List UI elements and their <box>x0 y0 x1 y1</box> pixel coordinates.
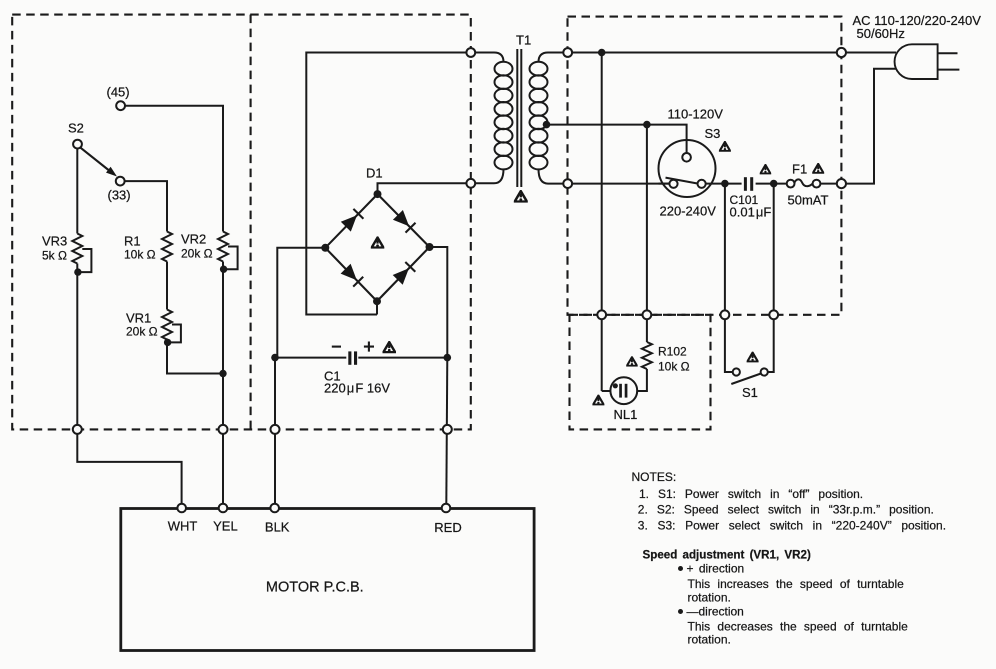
svg-text:Speed adjustment (VR1, VR2): Speed adjustment (VR1, VR2) <box>643 549 811 562</box>
junction S3 output <box>721 180 729 188</box>
plug prong bottom <box>938 69 960 71</box>
switch S1 contacts <box>733 368 740 375</box>
diode D1 bottom-right <box>393 268 409 285</box>
svg-text:RED: RED <box>434 520 461 535</box>
terminal node 33 <box>116 177 125 186</box>
wire node 45 to VR2 top <box>125 106 223 232</box>
svg-text:—direction: —direction <box>687 605 744 619</box>
svg-text:F1: F1 <box>792 162 807 177</box>
motor pcb box <box>121 509 534 651</box>
wire after fuse to plug <box>820 69 900 184</box>
pin WHT <box>177 504 186 513</box>
enclosure dashed box right (power input section) <box>568 17 842 315</box>
terminal T1 left top <box>466 48 475 57</box>
svg-text:50mAT: 50mAT <box>788 193 829 208</box>
switch S3 body <box>659 140 716 197</box>
junction bridge top vertex <box>374 190 382 198</box>
svg-text:VR2: VR2 <box>181 232 206 247</box>
wire bridge bottom vertex stub <box>376 301 378 314</box>
wire bridge right vertex to C1 <box>430 247 448 358</box>
svg-text:10k Ω: 10k Ω <box>124 248 156 262</box>
wire bridge left vertex to C1 <box>277 248 325 358</box>
svg-text:10k Ω: 10k Ω <box>658 360 690 374</box>
svg-text:rotation.: rotation. <box>688 633 731 647</box>
terminal T1 right bottom <box>563 179 572 188</box>
wire node 33 to R1 top <box>124 181 167 231</box>
warning triangle S1 <box>747 353 758 362</box>
warning triangle C1 <box>383 342 395 352</box>
terminal lamp box 2 <box>643 310 652 319</box>
terminal S1 feed 2 <box>769 310 778 319</box>
enclosure dashed box left (speed control section) <box>12 15 471 430</box>
junction bridge left vertex <box>321 244 329 252</box>
resistor VR3 <box>72 234 82 264</box>
junction 110V tap <box>643 121 651 129</box>
wire R102 bottom to lamp <box>637 369 647 391</box>
wiper VR2 <box>225 247 238 270</box>
svg-text:S1: S1 <box>742 385 758 400</box>
pin BLK <box>270 504 279 513</box>
warning triangle under T1 <box>515 191 527 202</box>
transformer T1 right winding <box>539 53 568 63</box>
terminal AC top <box>837 48 846 57</box>
wiper VR1 <box>169 325 181 343</box>
wire center tap to S3 <box>547 124 647 126</box>
junction bridge right vertex <box>426 243 434 251</box>
warning triangle S3 <box>720 142 731 151</box>
svg-text:S2: S2 <box>68 121 84 136</box>
switch S3 arm <box>666 178 698 184</box>
svg-text:220 μ F 16V: 220 μ F 16V <box>324 381 390 396</box>
vertical wire top row to lamp box <box>602 53 611 392</box>
svg-text:0.01 μF: 0.01 μF <box>730 205 772 220</box>
switch S3 left contact <box>669 180 677 188</box>
terminal node 45 <box>116 101 125 110</box>
terminal AC bottom <box>837 179 846 188</box>
wire R1 bottom to VR1 top <box>166 262 168 310</box>
svg-text:50/60Hz: 50/60Hz <box>857 26 905 41</box>
wire VR1 bottom to VR2 line <box>167 339 223 374</box>
wire VR2 bottom to YEL terminal <box>222 262 224 430</box>
plug prong top <box>938 52 958 54</box>
svg-text:(33): (33) <box>108 188 131 203</box>
warning triangle C101 <box>760 165 770 174</box>
wire VR3 bottom to WHT terminal <box>76 264 78 430</box>
resistor VR2 <box>218 232 228 262</box>
junction C1 right <box>444 354 452 362</box>
vertical wire S3 output to S1 <box>725 184 733 372</box>
pin YEL <box>219 504 228 513</box>
wire C1 left to BLK terminal <box>274 358 276 505</box>
wire C1 right to RED terminal <box>446 358 447 505</box>
AC plug <box>895 44 938 79</box>
pin RED <box>442 504 451 513</box>
svg-text:rotation.: rotation. <box>688 591 731 605</box>
fuse F1 <box>787 180 795 188</box>
svg-text:NOTES:: NOTES: <box>632 470 677 484</box>
wire C101 to fuse <box>756 183 788 185</box>
svg-text:R102: R102 <box>658 345 687 359</box>
terminal BLK boundary <box>271 425 280 434</box>
diode bridge D1 sides <box>325 194 429 301</box>
terminal YEL boundary <box>219 425 228 434</box>
junction VR2 wiper <box>220 266 227 273</box>
svg-text:MOTOR P.C.B.: MOTOR P.C.B. <box>266 580 364 596</box>
svg-text:(45): (45) <box>107 85 130 100</box>
neon lamp NL1 <box>610 377 637 404</box>
enclosure divider dashed <box>250 15 252 430</box>
capacitor C1 wire row <box>275 357 346 359</box>
svg-text:YEL: YEL <box>213 519 238 534</box>
wire bridge top vertex to transformer circle <box>378 183 471 194</box>
svg-text:BLK: BLK <box>265 520 290 535</box>
switch S3 wire into left contact <box>659 183 670 185</box>
junction after C101 <box>770 180 778 188</box>
svg-text:T1: T1 <box>516 33 531 48</box>
terminal S2 common <box>73 140 82 149</box>
wire WHT jog to motor pcb <box>77 429 181 505</box>
junction VR1-VR2 <box>219 370 226 377</box>
switch S1 arm <box>731 374 760 384</box>
resistor R1 <box>162 232 172 262</box>
junction bridge bottom vertex <box>373 297 381 305</box>
switch S3 top contact <box>682 153 691 162</box>
terminal T1 left bottom <box>466 179 475 188</box>
terminal S1 feed 1 <box>721 310 730 319</box>
diode D1 top-left <box>341 215 357 231</box>
svg-text:20k Ω: 20k Ω <box>181 247 213 261</box>
warning triangle F1 <box>813 164 824 173</box>
svg-text:WHT: WHT <box>168 519 198 534</box>
enclosure dashed box lower (lamp section) <box>570 315 711 430</box>
resistor R102 <box>642 342 652 369</box>
terminal lamp box 1 <box>597 310 606 319</box>
diode D1 top-right <box>393 210 409 226</box>
junction center tap on coil <box>543 121 551 129</box>
svg-text:1. S1: Power switch in “off” p: 1. S1: Power switch in “off” position. <box>639 487 863 501</box>
svg-text:This increases the speed of tu: This increases the speed of turntable <box>688 577 905 591</box>
plus sign C1 <box>364 342 374 352</box>
switch S2 arm with arrow <box>81 148 109 170</box>
svg-text:S3: S3 <box>705 126 721 141</box>
junction VR3 wiper <box>74 268 81 275</box>
transformer T1 left winding <box>471 53 504 63</box>
svg-text:5k Ω: 5k Ω <box>42 249 67 263</box>
minus sign C1 <box>332 346 341 348</box>
terminal RED boundary <box>443 425 452 434</box>
capacitor C1 plates <box>348 351 351 364</box>
wire S2 to VR3 <box>76 148 78 233</box>
svg-text:VR1: VR1 <box>126 311 151 326</box>
junction top row <box>598 49 606 57</box>
warning triangle NL1 <box>593 396 604 405</box>
resistor VR1 <box>162 310 172 340</box>
svg-text:2. S2: Speed select switch in: 2. S2: Speed select switch in “33r.p.m.”… <box>638 503 934 517</box>
svg-text:NL1: NL1 <box>614 407 638 422</box>
svg-text:VR3: VR3 <box>42 234 67 249</box>
wire 110V tap to S3 top contact <box>647 125 687 153</box>
vertical wire after C101 to S1 <box>768 184 774 372</box>
wire S3 right contact to C101 <box>706 183 742 185</box>
switch S3 right contact <box>698 180 706 188</box>
svg-text:D1: D1 <box>366 166 383 181</box>
wire YEL terminal to motor pcb <box>222 429 224 505</box>
svg-text:110-120V: 110-120V <box>668 107 724 122</box>
svg-text:3. S3: Power select switch in: 3. S3: Power select switch in “220-240V”… <box>638 519 946 533</box>
transformer T1 core <box>516 49 518 187</box>
wiper VR3 <box>80 249 92 272</box>
svg-text:20k Ω: 20k Ω <box>126 325 158 339</box>
wire AC top row to plug <box>568 52 896 54</box>
junction C1 left <box>271 354 279 362</box>
svg-text:220-240V: 220-240V <box>660 204 717 219</box>
svg-text:+ direction: + direction <box>687 562 745 576</box>
terminal T1 right top <box>563 48 572 57</box>
capacitor C101 plates <box>744 177 747 191</box>
vertical wire 110V tap to R102 <box>646 125 648 342</box>
junction VR1 wiper <box>164 339 171 346</box>
wire transformer bottom row to S3 left contact <box>568 183 670 185</box>
svg-text:R1: R1 <box>124 234 141 249</box>
terminal WHT boundary <box>73 425 82 434</box>
wire bridge AC loop (top vertex to transformer bottom lead side) <box>306 53 471 315</box>
warning triangle R102 <box>627 357 637 366</box>
svg-text:This decreases the speed of tu: This decreases the speed of turntable <box>688 620 909 634</box>
diode D1 bottom-left <box>341 264 357 281</box>
warning triangle bridge center <box>372 238 384 248</box>
